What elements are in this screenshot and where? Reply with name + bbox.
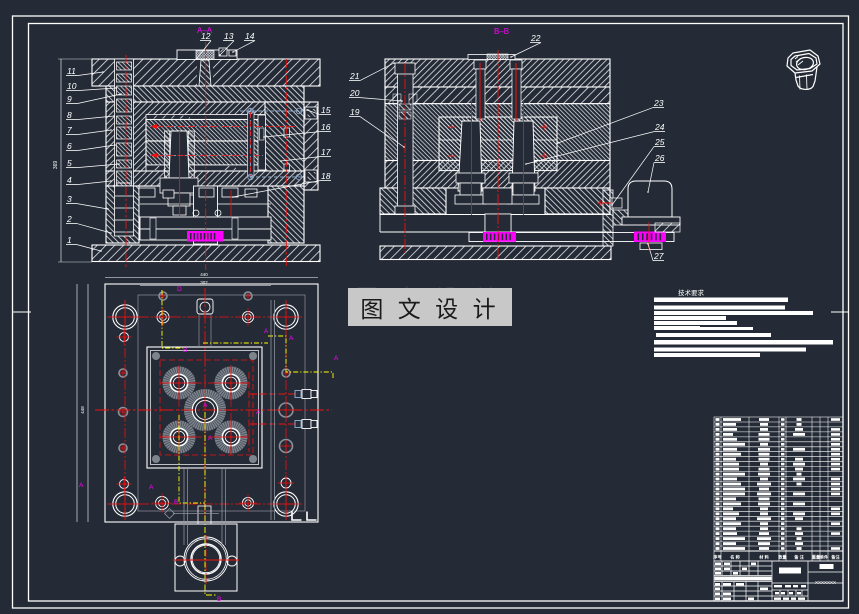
right core [512,121,535,191]
ejector retainer plate [140,217,271,229]
notes text bars [654,298,788,303]
svg-text:302: 302 [200,280,208,285]
svg-text:A: A [79,482,84,489]
screw 13 [219,48,227,56]
cooling line 1 [150,125,263,127]
svg-text:440: 440 [200,272,208,277]
plan outer plate [105,284,318,522]
plan view (top view of moving half) [79,284,339,603]
cavity circle red dashed square [160,360,253,455]
B-B right spacer [545,188,610,214]
plan dimensions [105,277,318,279]
right side blocks [304,102,318,190]
B-B screw centerlines [479,63,481,121]
section view A-A [92,42,320,270]
svg-text:26: 26 [654,153,665,163]
mold insert square [147,347,262,468]
svg-text:A: A [203,402,208,409]
latch block 15 [305,107,317,119]
screw 14 [229,50,236,56]
right block of plates [265,102,304,186]
B-B runner plate [385,87,610,104]
magenta pinion right (27) [634,232,666,243]
motor 26 [628,181,672,217]
svg-text:13: 13 [224,31,234,41]
svg-text:20: 20 [349,88,360,98]
flange bottom view [165,469,239,591]
svg-text:17: 17 [321,147,331,157]
svg-text:B–B: B–B [494,27,509,36]
motor bracket [603,190,613,246]
svg-text:技术要求: 技术要求 [678,288,705,297]
B-B left spacer [380,188,446,214]
water nipple 2 [250,423,298,425]
svg-text:18: 18 [321,171,331,181]
cavity insert block [146,120,265,142]
svg-text:图 文 设 计: 图 文 设 计 [360,296,499,322]
ejector pin column [258,115,266,170]
svg-text:2: 2 [66,214,72,224]
plan centerlines [95,409,332,411]
svg-text:19: 19 [350,107,360,117]
central ejector platform [483,188,512,204]
sprue inlet symbol [197,299,213,314]
svg-text:25: 25 [654,137,665,147]
BOM parts table [714,417,843,561]
B-B pillar centerline [404,63,406,255]
highlighted rack/gear block (magenta) [187,231,224,242]
svg-text:10: 10 [67,81,77,91]
svg-text:备注: 备注 [831,554,840,561]
flange centerlines [173,559,239,561]
water nipple 1 [250,393,298,395]
flange ears [175,556,185,566]
screw head 22a [474,60,486,69]
svg-text:5: 5 [67,158,72,168]
cooling path A right [268,336,333,378]
plan inner plate [138,295,305,511]
core / sprue puller [169,131,189,178]
locating ring (12) [177,50,237,60]
svg-text:A: A [334,355,339,362]
screw head 22b [510,60,522,69]
motor pedestal [622,217,680,225]
svg-text:9: 9 [67,94,72,104]
grey screw circles [119,369,127,377]
B-B core centerlines [471,100,473,215]
svg-text:27: 27 [653,251,664,261]
magenta rack block center [483,232,516,242]
guide pillar column [115,59,134,236]
svg-text:12: 12 [201,31,211,41]
B-B cavity insert box [439,117,557,171]
bottom clamp plate (1) [92,245,320,262]
B-B support plate [385,161,610,189]
BOM row text [716,418,841,550]
ejector pin centerline [285,59,287,267]
water channel marks [448,126,456,128]
main centerline [205,42,207,270]
cooling line 2 [150,154,263,156]
watermark box [348,288,512,326]
title block [714,561,843,601]
A and B plates [106,102,304,186]
screw channels [476,69,485,119]
insert corner screws [152,352,160,360]
guide bushing circles [113,305,137,329]
svg-text:A: A [256,409,261,416]
B-B guide pillar [398,63,414,214]
A-A height dimension [60,59,62,262]
svg-text:A: A [289,335,294,342]
B-B bottom clamp plate [380,246,611,260]
svg-text:序号: 序号 [713,554,721,561]
guide pillar lower part [115,186,134,236]
B-B locating ring [468,55,515,60]
svg-text:6: 6 [67,141,72,151]
svg-text:材 料: 材 料 [758,554,769,561]
return pin right [284,128,290,137]
ejector base plate [140,229,271,240]
flange body [175,524,237,591]
ejector rack bar [469,233,674,242]
datum marker [165,509,175,519]
svg-text:单件: 单件 [820,554,829,561]
right centering mark [831,311,849,313]
svg-text:22: 22 [530,33,541,43]
left core [458,121,482,191]
svg-text:A: A [149,484,154,491]
svg-text:11: 11 [67,66,76,76]
cavity gears [166,370,192,396]
title block text [715,563,837,601]
side rail verticals [270,300,272,520]
B-B main centerline [497,50,499,259]
section view B-B [380,50,680,260]
sprue rails [198,314,200,347]
corner relief marks [292,512,302,521]
flange rings [184,537,228,581]
guide bushing stack [117,62,132,70]
core seam band [146,165,265,171]
runner/stripper plate [106,86,304,102]
svg-text:数量: 数量 [778,554,787,561]
core insert block [146,141,265,165]
svg-text:A: A [208,435,213,442]
sprue tab [198,506,211,524]
cooling path left [179,415,205,503]
cooling path B down [205,412,216,595]
rail lines [183,469,185,545]
svg-text:A: A [264,328,269,335]
svg-text:24: 24 [654,122,665,132]
cooling channel right [248,112,255,176]
sprue bushing [199,60,211,86]
cooling circuit right [240,110,303,112]
nut part 3d sketch [787,50,820,90]
ejector plate screws [150,218,156,239]
small hole circles [157,311,169,323]
centerline guide pillar [125,55,127,267]
svg-text:4: 4 [67,175,72,185]
svg-text:D: D [177,286,182,293]
left centering mark [13,311,32,313]
support plate [106,171,304,186]
svg-text:23: 23 [653,98,664,108]
ejector space [380,214,611,216]
svg-text:B: B [217,596,221,603]
sleeve strips [165,131,170,195]
svg-text:8: 8 [67,110,72,120]
puller rod [598,202,622,204]
svg-text:B: B [183,347,187,354]
B-B A/B plates [385,104,610,161]
ejector space bolts [139,188,155,197]
svg-text:名 称: 名 称 [730,554,740,561]
svg-text:1: 1 [67,235,72,245]
ejector top line [140,203,271,205]
svg-text:14: 14 [245,31,255,41]
right spacer rail [268,186,304,243]
svg-text:16: 16 [321,122,331,132]
svg-text:369: 369 [53,161,59,170]
svg-text:15: 15 [321,105,331,115]
cooling path D [162,290,183,348]
svg-text:备 注: 备 注 [794,554,804,561]
svg-text:XXXXXXX: XXXXXXX [815,580,836,585]
center gear [188,393,222,427]
latch block 18 [305,170,317,182]
cavity seam band [146,115,265,120]
ejector rod column [194,186,218,244]
B-B top clamp plate [385,59,610,87]
svg-text:21: 21 [349,71,360,81]
svg-text:3: 3 [67,194,72,204]
svg-text:7: 7 [67,125,72,135]
top clamp plate (11) [92,59,320,86]
left spacer rail [106,186,139,243]
svg-text:448: 448 [80,406,85,414]
svg-text:B: B [174,499,178,506]
